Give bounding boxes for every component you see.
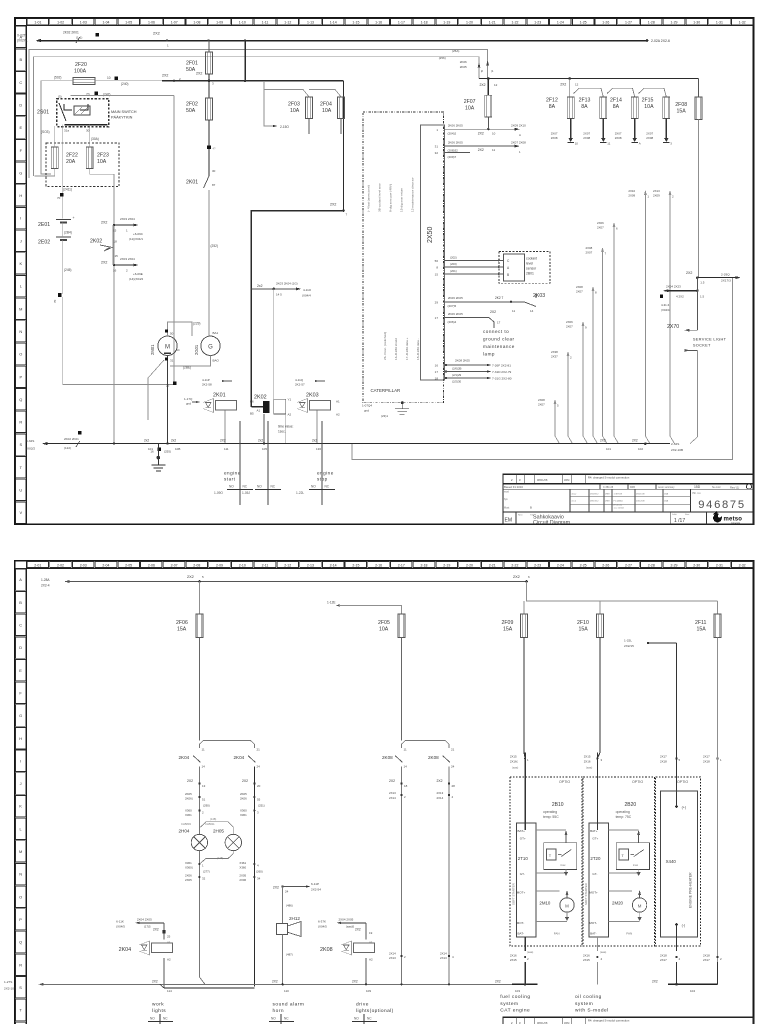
caption sound alarm horn	[269, 1002, 304, 1024]
svg-text:2F14: 2F14	[610, 98, 622, 104]
svg-text:2X04 2X23: 2X04 2X23	[666, 285, 681, 289]
fuse 2F02 50A	[186, 74, 213, 176]
svg-text:(2411): (2411)	[63, 188, 72, 192]
svg-text:A: A	[639, 142, 641, 146]
svg-text:2X18: 2X18	[660, 954, 667, 958]
svg-text:2X2: 2X2	[686, 271, 692, 275]
svg-text:104: 104	[690, 989, 695, 993]
svg-text:1-22L: 1-22L	[296, 491, 304, 495]
svg-text:1-C:12344: 1-C:12344	[614, 508, 625, 510]
svg-text:2-02: 2-02	[57, 563, 64, 567]
svg-text:15-dig snsr return: 15-dig snsr return	[400, 187, 404, 212]
svg-text:M: M	[19, 306, 22, 311]
svg-text:6-11P: 6-11P	[311, 882, 319, 886]
svg-text:2X2: 2X2	[187, 575, 194, 579]
svg-text:04/12/08: 04/12/08	[636, 501, 645, 503]
contact 2K02 (battery feed)	[90, 239, 118, 259]
option box pre-heater (dashed)	[656, 777, 701, 946]
svg-text:1-17Q: 1-17Q	[184, 397, 193, 401]
svg-text:S: S	[19, 442, 22, 447]
svg-text:2X2: 2X2	[490, 310, 496, 314]
svg-text:2x2: 2x2	[258, 438, 263, 442]
svg-text:mod: mod	[504, 491, 509, 494]
svg-text:(502): (502)	[54, 76, 61, 80]
svg-text:15A: 15A	[677, 109, 687, 115]
svg-text:12: 12	[494, 83, 498, 87]
wire main distribution 2X2	[162, 41, 348, 407]
svg-text:2M10: 2M10	[539, 901, 551, 906]
svg-text:34: 34	[257, 877, 261, 881]
svg-text:2-07: 2-07	[171, 563, 178, 567]
svg-text:1-04: 1-04	[102, 21, 109, 25]
fuse 2F04 10A	[320, 97, 345, 134]
svg-text:2X2: 2X2	[162, 74, 168, 78]
svg-text:Q: Q	[19, 940, 22, 945]
svg-text:EM: EM	[505, 518, 513, 524]
main switch 2S01	[37, 95, 137, 142]
svg-text:OPTIO: OPTIO	[559, 780, 570, 784]
svg-text:BAO: BAO	[213, 359, 220, 363]
svg-text:111: 111	[224, 447, 229, 451]
svg-text:B: B	[507, 273, 509, 277]
svg-text:2T20: 2T20	[590, 856, 601, 861]
ground ECU	[362, 401, 409, 418]
svg-text:2-18: 2-18	[420, 563, 427, 567]
svg-text:2F07: 2F07	[464, 99, 476, 105]
svg-text:103: 103	[515, 989, 520, 993]
svg-text:10A: 10A	[465, 106, 475, 112]
svg-text:lights(optional): lights(optional)	[356, 1008, 394, 1014]
svg-text:20A: 20A	[66, 159, 76, 165]
svg-text:11: 11	[512, 309, 515, 313]
svg-text:M: M	[19, 849, 22, 854]
svg-text:G: G	[19, 713, 22, 718]
wire battery column	[53, 223, 176, 388]
svg-text:2X03 2X04: 2X03 2X04	[120, 257, 135, 261]
svg-text:2X2: 2X2	[152, 980, 158, 984]
svg-text:2X08: 2X08	[576, 285, 583, 289]
svg-text:2X2: 2X2	[480, 83, 486, 87]
svg-text:16: 16	[435, 364, 439, 368]
wire 2F07 feeder risers	[439, 49, 494, 73]
svg-text:draw: draw	[572, 493, 577, 496]
svg-text:(240): (240)	[121, 82, 128, 86]
svg-text:SERVICE LIGHT: SERVICE LIGHT	[693, 337, 727, 342]
caption oil cooling system	[575, 994, 609, 1014]
svg-text:V: V	[19, 510, 22, 515]
svg-text:1-03: 1-03	[80, 21, 87, 25]
svg-text:50: 50	[170, 332, 174, 336]
svg-text:15A: 15A	[503, 627, 513, 633]
svg-text:25: 25	[167, 935, 171, 939]
svg-text:2-12: 2-12	[284, 563, 291, 567]
svg-text:(+): (+)	[682, 806, 687, 810]
svg-text:system: system	[500, 1001, 518, 1007]
svg-text:2X2: 2X2	[273, 886, 279, 890]
svg-text:A: A	[19, 577, 22, 582]
svg-text:(202): (202)	[450, 256, 457, 260]
svg-text:(aaa): (aaa)	[600, 950, 606, 954]
svg-text:2X17: 2X17	[703, 755, 710, 759]
svg-text:A1: A1	[336, 400, 340, 404]
svg-text:A2: A2	[336, 413, 340, 417]
svg-text:X360(: X360(	[185, 865, 193, 869]
svg-text:2T10: 2T10	[518, 856, 529, 861]
svg-text:2X07: 2X07	[583, 132, 590, 136]
svg-text:8A: 8A	[549, 104, 556, 110]
svg-text:FAN: FAN	[554, 932, 560, 936]
svg-text:16-J1939 shield: 16-J1939 shield	[394, 338, 398, 360]
svg-text:2X14: 2X14	[437, 796, 444, 800]
svg-text:NC: NC	[271, 484, 276, 488]
svg-text:minerals: minerals	[731, 522, 741, 525]
svg-text:Muut: Muut	[504, 507, 510, 510]
svg-text:2X08: 2X08	[583, 136, 590, 140]
svg-text:1BA: 1BA	[664, 500, 669, 503]
coolant level sensor 2B01	[499, 252, 550, 284]
ECU box CATERPILLAR (dashed)	[363, 112, 444, 403]
svg-text:2-15O: 2-15O	[280, 125, 289, 129]
svg-text:(1-1): (1-1)	[76, 36, 82, 40]
svg-text:2X15: 2X15	[584, 755, 591, 759]
svg-text:2X2: 2X2	[389, 779, 395, 783]
svg-text:2x2: 2x2	[144, 438, 149, 442]
svg-text:G: G	[208, 345, 213, 351]
svg-text:(25A): (25A)	[452, 49, 459, 53]
relay 2K01	[184, 378, 254, 444]
svg-text:1-21: 1-21	[489, 21, 496, 25]
svg-text:114: 114	[167, 989, 172, 993]
svg-text:engine: engine	[224, 471, 241, 476]
fuse 2F10 15A	[577, 614, 604, 753]
svg-text:08/13/12: 08/13/12	[590, 501, 599, 503]
svg-text:(X04/4: (X04/4	[661, 308, 670, 312]
fuse 2F20 100A	[48, 62, 174, 86]
svg-text:32: 32	[435, 151, 439, 155]
node 2X2-3	[196, 72, 214, 86]
work lamp 2H05	[201, 817, 242, 863]
riser 2X06 2X07 |6	[597, 221, 619, 444]
generator 2G01	[170, 331, 220, 370]
svg-text:(229): (229)	[193, 322, 200, 326]
svg-text:1-26: 1-26	[602, 21, 609, 25]
svg-text:(486): (486)	[286, 903, 293, 907]
svg-text:2F11: 2F11	[695, 620, 707, 626]
svg-text:105: 105	[262, 447, 267, 451]
svg-text:H: H	[19, 736, 22, 741]
svg-text:(203): (203)	[450, 262, 457, 266]
page 2 sheet frame with grid reference strips	[15, 561, 754, 1024]
svg-text:X-02T: X-02T	[17, 34, 26, 38]
svg-text:2K01: 2K01	[186, 180, 198, 186]
svg-text:R4: changed S-modul connection: R4: changed S-modul connection	[588, 1019, 630, 1023]
riser 2X38 2X37 |2	[551, 350, 573, 444]
svg-text:MOT-: MOT-	[589, 921, 597, 925]
svg-text:24: 24	[285, 889, 289, 893]
svg-text:136: 136	[316, 447, 321, 451]
svg-text:lamp: lamp	[483, 352, 495, 357]
svg-text:engine: engine	[317, 471, 334, 476]
contact cross 1-22L	[296, 421, 335, 505]
wire fuse cascade bus	[570, 79, 667, 97]
contact cross 1-05J	[242, 421, 281, 505]
svg-text:Q: Q	[19, 397, 22, 402]
svg-text:2K02 2K01: 2K02 2K01	[64, 437, 79, 441]
wire switch to 2F22 2F23	[35, 125, 115, 444]
service light socket 2X70	[667, 278, 727, 444]
svg-text:2-32S: 2-32S	[671, 442, 679, 446]
logo metso minerals	[713, 511, 743, 525]
svg-text:109: 109	[366, 989, 371, 993]
svg-text:X360: X360	[240, 809, 247, 813]
option box oil cooling (dashed)	[583, 777, 654, 946]
svg-text:2X15: 2X15	[510, 755, 517, 759]
svg-text:(2/1)29: (2/1)29	[452, 373, 462, 377]
svg-text:2X07: 2X07	[576, 290, 583, 294]
svg-text:1-29: 1-29	[670, 21, 677, 25]
svg-text:1-15: 1-15	[352, 21, 359, 25]
wire 2K02 Y1 feed	[251, 282, 311, 400]
svg-text:(487): (487)	[286, 952, 293, 956]
svg-text:1-16: 1-16	[375, 21, 382, 25]
svg-text:2K02: 2K02	[90, 239, 102, 245]
svg-text:2X2: 2X2	[478, 131, 484, 135]
fuse 2F01 50A	[186, 41, 213, 75]
svg-text:BAT-: BAT-	[518, 932, 524, 936]
2X50 sensor wires	[435, 256, 504, 277]
svg-text:gnd: gnd	[186, 402, 191, 406]
svg-text:2K05: 2K05	[185, 792, 192, 796]
svg-text:110: 110	[284, 989, 289, 993]
svg-text:2X2-54: 2X2-54	[311, 888, 321, 892]
svg-text:connect to: connect to	[483, 329, 509, 334]
svg-text:2-17: 2-17	[398, 563, 405, 567]
svg-text:2F22: 2F22	[66, 153, 78, 159]
svg-text:2K04: 2K04	[179, 755, 190, 760]
svg-text:2X15: 2X15	[583, 958, 590, 962]
2X50 pin 32 wire	[435, 151, 470, 159]
svg-text:2X14: 2X14	[440, 952, 447, 956]
svg-text:2x2: 2x2	[171, 438, 176, 442]
svg-text:2F20: 2F20	[75, 62, 87, 68]
svg-text:N: N	[19, 329, 22, 334]
wire right feeder 2X2-12	[479, 77, 699, 87]
svg-text:(X02/2: (X02/2	[26, 447, 35, 451]
svg-text:B: B	[19, 600, 22, 605]
svg-text:OPTIO: OPTIO	[677, 780, 688, 784]
svg-text:MAIN SWITCH: MAIN SWITCH	[111, 110, 137, 114]
svg-text:10A: 10A	[644, 104, 654, 110]
svg-text:2F23: 2F23	[97, 153, 109, 159]
svg-text:(256): (256)	[439, 56, 446, 60]
battery 2E02	[38, 237, 71, 272]
svg-text:X361: X361	[185, 861, 192, 865]
svg-text:2X07: 2X07	[597, 226, 604, 230]
fuse 2F12	[546, 97, 578, 146]
svg-text:ENGINE PRE-HEATER: ENGINE PRE-HEATER	[689, 872, 693, 908]
svg-text:2X2-10B: 2X2-10B	[671, 448, 683, 452]
svg-text:fuel cooling: fuel cooling	[500, 994, 530, 1000]
svg-text:2X2: 2X2	[600, 438, 606, 442]
svg-text:2-29: 2-29	[670, 563, 677, 567]
wire service light return rail	[352, 278, 732, 460]
svg-text:2X13: 2X13	[440, 956, 447, 960]
svg-text:1-13: 1-13	[307, 21, 314, 25]
svg-text:2X16(: 2X16(	[510, 759, 518, 763]
svg-text:(245): (245)	[64, 268, 71, 272]
svg-text:2X15: 2X15	[510, 958, 517, 962]
svg-text:I: I	[20, 216, 21, 221]
svg-text:17: 17	[497, 321, 501, 325]
svg-text:(260): (260)	[256, 869, 263, 873]
svg-text:SOCKET: SOCKET	[693, 342, 711, 347]
label engine stop	[317, 471, 334, 482]
svg-text:NC: NC	[243, 484, 248, 488]
soft starter 2B10 / 2T10 / fan motor 2M10	[511, 802, 577, 937]
svg-text:2X2: 2X2	[220, 438, 226, 442]
svg-text:4 2X2: 4 2X2	[676, 295, 684, 299]
svg-text:maintenance: maintenance	[483, 344, 515, 349]
svg-text:NC: NC	[284, 1017, 289, 1021]
svg-text:12: 12	[575, 82, 579, 86]
svg-text:7-26F 2X2-81: 7-26F 2X2-81	[492, 364, 511, 368]
svg-text:(X04/5: (X04/5	[116, 925, 125, 929]
svg-text:1-30: 1-30	[693, 21, 700, 25]
svg-text:2X06: 2X06	[185, 873, 192, 877]
svg-text:2-03: 2-03	[80, 563, 87, 567]
svg-text:(208)32: (208)32	[448, 149, 459, 153]
svg-text:(209)7: (209)7	[448, 155, 457, 159]
svg-text:(2BE): (2BE)	[183, 366, 191, 370]
svg-text:+6-09E: +6-09E	[133, 272, 143, 276]
svg-text:1.5: 1.5	[700, 295, 705, 299]
svg-text:15: 15	[113, 229, 117, 233]
svg-text:1-20: 1-20	[466, 21, 473, 25]
svg-text:(X04/4: (X04/4	[302, 294, 311, 298]
svg-text:2X13: 2X13	[653, 189, 660, 193]
riser 2X08 2X07 |7	[586, 246, 608, 444]
svg-text:Based F1:1016: Based F1:1016	[504, 485, 523, 489]
relay 2K08 coil	[318, 917, 375, 984]
svg-text:X361: X361	[239, 861, 246, 865]
svg-text:2K06: 2K06	[460, 60, 467, 64]
svg-text:2F03: 2F03	[288, 102, 300, 108]
svg-text:H: H	[19, 193, 22, 198]
svg-text:M: M	[165, 345, 170, 351]
svg-text:8A: 8A	[613, 104, 620, 110]
wire top supply bus 1-A	[17, 31, 670, 48]
svg-text:10B: 10B	[175, 447, 180, 451]
svg-text:2H05: 2H05	[213, 829, 224, 834]
svg-text:Nimi: Nimi	[518, 515, 523, 517]
svg-text:2X2-107: 2X2-107	[4, 987, 16, 991]
svg-text:2X07: 2X07	[615, 132, 622, 136]
wire 2X2 1.5 to 2-29Q	[686, 271, 741, 285]
svg-text:24: 24	[451, 765, 455, 769]
svg-text:gnd: gnd	[364, 409, 369, 413]
riser 2X06 2X07 |9	[566, 320, 588, 444]
svg-text:R4: changed S-modul connection: R4: changed S-modul connection	[588, 476, 630, 480]
svg-text:F1 (A3A1: F1 (A3A1	[614, 500, 624, 503]
2X50 pin 17 wire (maintenance lamp)	[435, 310, 515, 356]
svg-text:system: system	[575, 1001, 593, 1007]
wire 70 to starter (242)	[71, 92, 174, 385]
svg-text:2F15: 2F15	[642, 98, 654, 104]
svg-text:2-19: 2-19	[443, 563, 450, 567]
svg-text:2-26: 2-26	[602, 563, 609, 567]
svg-text:(aaa): (aaa)	[512, 765, 518, 769]
svg-text:A2: A2	[167, 957, 171, 961]
svg-text:87: 87	[212, 183, 216, 187]
svg-text:A2: A2	[288, 413, 292, 417]
svg-text:18: 18	[114, 240, 118, 244]
svg-text:2K08: 2K08	[320, 947, 333, 953]
svg-text:2X70: 2X70	[667, 324, 679, 330]
svg-text:12-maintenance clear sw: 12-maintenance clear sw	[411, 177, 415, 212]
svg-text:2X17: 2X17	[703, 958, 710, 962]
svg-text:(aaa)5: (aaa)5	[346, 925, 355, 929]
svg-text:(5): (5)	[58, 95, 62, 99]
svg-text:10: 10	[107, 76, 111, 80]
svg-text:R: R	[19, 962, 22, 967]
svg-text:sensor: sensor	[526, 267, 537, 271]
svg-text:time value:: time value:	[278, 425, 294, 429]
svg-text:2X14: 2X14	[389, 952, 396, 956]
svg-text:1-05J: 1-05J	[242, 491, 250, 495]
fuse 2F11 15A	[695, 614, 721, 753]
svg-text:32: 32	[202, 877, 206, 881]
contact pair 2K04 (work lights)	[179, 741, 261, 987]
svg-text:2-08: 2-08	[193, 563, 200, 567]
svg-text:2K06 2K05: 2K06 2K05	[448, 124, 463, 128]
svg-text:24: 24	[257, 765, 261, 769]
svg-text:(aaa): (aaa)	[586, 765, 592, 769]
svg-text:2X08: 2X08	[538, 398, 545, 402]
svg-text:11: 11	[202, 748, 205, 752]
svg-text:CH5611: CH5611	[205, 822, 215, 826]
svg-text:2X09 2X10: 2X09 2X10	[511, 124, 526, 128]
work lamp 2H04	[179, 822, 208, 851]
svg-text:14: 14	[530, 309, 534, 313]
svg-text:D: D	[19, 103, 22, 108]
svg-text:+6-09C: +6-09C	[133, 232, 144, 236]
contact 2K01 (main)	[186, 146, 218, 337]
svg-text:55: 55	[257, 798, 261, 802]
svg-text:horn: horn	[273, 1008, 285, 1014]
svg-text:R4B: R4B	[630, 486, 635, 489]
svg-text:2X2: 2X2	[652, 980, 658, 984]
svg-text:(17)5: (17)5	[144, 925, 151, 929]
svg-text:(2/0)2B: (2/0)2B	[452, 367, 462, 371]
svg-text:15: 15	[435, 273, 439, 277]
svg-text:(-): (-)	[682, 924, 686, 928]
svg-text:2-32: 2-32	[739, 563, 746, 567]
svg-text:2K04: 2K04	[234, 755, 245, 760]
svg-text:2F09: 2F09	[502, 620, 514, 626]
svg-text:2K2 7: 2K2 7	[495, 296, 504, 300]
svg-text:2X2: 2X2	[196, 72, 202, 76]
svg-text:1-19: 1-19	[443, 21, 450, 25]
ECU pin notes (rotated, bottom)	[383, 332, 420, 360]
svg-text:2-29Q: 2-29Q	[721, 272, 730, 276]
svg-text:D: D	[19, 645, 22, 650]
svg-text:2-02A 2X2-6: 2-02A 2X2-6	[651, 39, 670, 43]
label engine start	[224, 471, 241, 482]
svg-text:(11)(X04/1: (11)(X04/1	[129, 237, 143, 241]
svg-text:SOFT STARTER: SOFT STARTER	[511, 883, 515, 905]
svg-text:100A: 100A	[74, 69, 87, 75]
svg-text:2-04: 2-04	[102, 563, 109, 567]
